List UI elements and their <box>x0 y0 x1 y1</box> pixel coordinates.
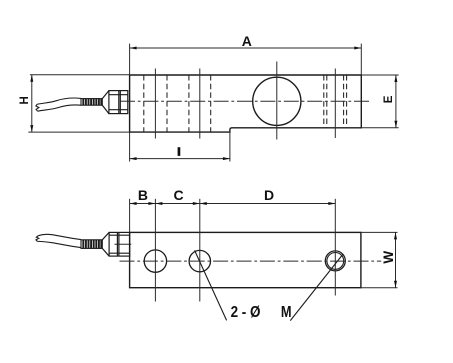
strain relief ribs (side view) <box>81 99 102 106</box>
dimension E <box>361 75 398 128</box>
cable gland cone (side view) <box>102 91 109 114</box>
svg-text:M: M <box>281 304 292 322</box>
svg-text:2 - Ø: 2 - Ø <box>231 304 261 321</box>
horizontal centerline (plan view) <box>120 260 382 262</box>
svg-text:E: E <box>383 95 395 103</box>
dimension C <box>155 203 199 205</box>
M hole centerline vertical (plan view, extension for D) <box>334 199 336 296</box>
dimension D <box>200 203 335 205</box>
label I <box>178 147 181 156</box>
hole 1 centerline vertical (plan view, extension for B/C) <box>154 199 156 302</box>
dimension W <box>361 232 398 287</box>
cable gland cone (plan view) <box>102 232 109 256</box>
circle centerline vertical (side view) <box>276 62 278 140</box>
dimension B <box>130 203 156 205</box>
svg-text:D: D <box>264 187 274 203</box>
load cell body outline (plan view) <box>130 232 361 287</box>
svg-text:A: A <box>242 33 252 49</box>
label 2 - diameter <box>231 304 261 321</box>
svg-text:W: W <box>381 251 396 264</box>
hole 2 centerline vertical (plan view, extension for C/D) <box>199 199 201 302</box>
threaded hole M inner circle (plan view) <box>327 253 344 270</box>
threaded hole M hidden lines (side view) <box>324 75 347 128</box>
svg-text:H: H <box>19 96 31 104</box>
cable gland nut (side view) <box>109 91 128 114</box>
mounting hole 1 (plan view) <box>144 250 166 272</box>
dimension I <box>130 130 230 162</box>
leader line for 2-diameter holes <box>195 250 227 320</box>
body left edge extension up to dimension line (plan view) <box>129 199 131 233</box>
mounting hole 2 (plan view) <box>189 250 210 271</box>
label M <box>281 304 292 322</box>
dimension A <box>130 44 362 75</box>
gland centerline dash (plan view) <box>115 243 132 245</box>
cable gland nut (plan view) <box>109 232 130 256</box>
M hole centerline vertical (side view) <box>334 69 336 139</box>
large load button circle (side view) <box>253 77 301 125</box>
horizontal centerline (side view) <box>120 100 371 102</box>
leader line for M thread <box>290 254 343 321</box>
threaded hole M outer circle (plan view) <box>325 251 345 271</box>
cable (plan view) <box>36 234 81 247</box>
strain relief ribs (plan view) <box>81 240 102 249</box>
load cell body outline (side view, stepped bottom right) <box>130 75 362 132</box>
mounting hole 1 hidden lines (side view) <box>144 75 167 132</box>
svg-text:B: B <box>138 187 148 203</box>
hole 1 centerline vertical (side view) <box>154 69 156 139</box>
svg-text:C: C <box>173 187 183 203</box>
mounting hole 2 hidden lines (side view) <box>189 75 211 132</box>
cable (side view) <box>36 98 81 111</box>
dimension H <box>28 75 129 132</box>
hole 2 centerline vertical (side view) <box>199 69 201 139</box>
